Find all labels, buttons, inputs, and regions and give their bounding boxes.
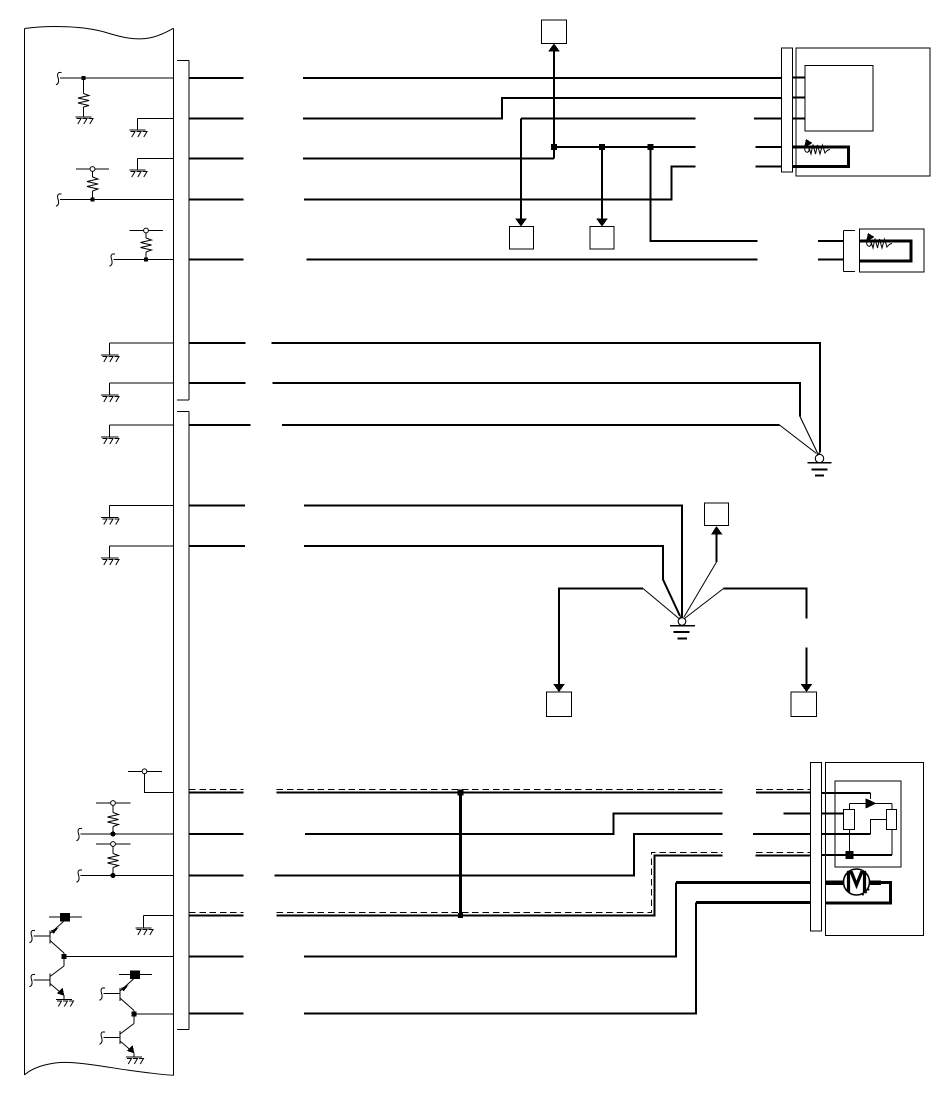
off-page box B5 bbox=[791, 692, 817, 717]
arrow up into box B6 bbox=[711, 526, 723, 535]
off-page box B2 bbox=[510, 227, 534, 250]
wire b3 internal (row y=875.5) bbox=[76, 870, 173, 882]
chassis ground GND2 (center) bbox=[678, 617, 686, 626]
motor terminal stub right bbox=[869, 880, 881, 885]
junction at R2 bottom bbox=[91, 198, 95, 202]
heater H2 squiggle bbox=[867, 239, 892, 249]
pin stub U2-3 bbox=[793, 118, 806, 120]
chassis ground GND1 (right) bbox=[815, 453, 823, 462]
heater H1 squiggle bbox=[805, 145, 830, 155]
O2 sensor unit box U2 bbox=[796, 48, 930, 176]
wire node-A branch (y=147 to right) bbox=[554, 146, 782, 148]
junction node Q3/Q4 (134,1014) bbox=[132, 1012, 137, 1017]
wire drop to box B2 (x=521) bbox=[520, 119, 522, 220]
wire pin4 internal (row y=199.5) bbox=[56, 194, 174, 206]
pull-up resistor R3 (pin5) bbox=[130, 228, 164, 259]
junction bus top bbox=[458, 790, 464, 796]
wire m2 internal + ground G5 (row y=383) bbox=[110, 383, 174, 395]
shield bus vertical (x=460.5) bbox=[459, 793, 462, 916]
resistor element right (sensor) bbox=[887, 810, 897, 830]
off-page box B6 bbox=[705, 503, 729, 526]
arrow up into off-page box B1 bbox=[548, 43, 560, 51]
junction at R5 bottom bbox=[110, 873, 115, 878]
wire m5 internal + ground G8 (row y=546) bbox=[110, 546, 174, 558]
heater H2 arrow bbox=[866, 233, 875, 242]
ground G2 bbox=[130, 130, 148, 137]
wire motor feed 2 (y=902.5) bbox=[696, 901, 811, 904]
off-page box B3 bbox=[590, 227, 614, 250]
wire pin2 internal (row y=118.5) bbox=[138, 119, 174, 131]
wire m1 harness (y=343 to ground point) bbox=[189, 343, 820, 453]
transistor Q2 (NPN lower, pair1) bbox=[29, 966, 64, 1000]
wire pin1 harness (y=78 to O2 sensor) bbox=[189, 77, 782, 79]
pull-up resistor R2 (pin4) bbox=[76, 167, 109, 200]
connector C2 (heater H2) bbox=[844, 231, 856, 272]
wire m3 harness (y=425, slant to ground) bbox=[189, 424, 780, 426]
junction at R3 bottom bbox=[144, 258, 148, 262]
supply square V1 (pair1) bbox=[60, 913, 70, 922]
wire pin1 internal (row y=78) bbox=[56, 72, 174, 84]
wire m1 internal + ground G4 (row y=343) bbox=[110, 343, 174, 355]
motor unit box U4 bbox=[826, 763, 924, 936]
wire b6 harness (row y=1013.5 up to motor feed y=902.5) bbox=[189, 903, 696, 1014]
Q3 emitter arrow bbox=[121, 985, 129, 992]
resistor R1 bbox=[78, 78, 89, 117]
ground G10 (Q2 emitter) bbox=[56, 1000, 74, 1007]
supply square V2 (pair2) bbox=[130, 971, 140, 980]
ground G11 (Q4 emitter) bbox=[126, 1057, 144, 1064]
pin stub U4-3 (to right element) bbox=[822, 820, 887, 835]
transistor Q4 (NPN lower, pair2) bbox=[99, 1024, 134, 1058]
Q1 emitter arrow bbox=[51, 928, 59, 935]
wire right horn (GND2 to box B5) bbox=[724, 589, 807, 685]
wire motor feed 1 (y=882.5) bbox=[676, 881, 811, 884]
wire b2 internal (row y=834) bbox=[76, 828, 173, 840]
ground G3 bbox=[130, 170, 148, 177]
wire b5 harness (row y=956.5 up to motor feed y=882.5) bbox=[189, 883, 676, 957]
junction node A2 (602,147) bbox=[599, 144, 605, 150]
wire m2 slant into GND1 bbox=[800, 417, 818, 454]
position sensor box (inside U4) bbox=[835, 781, 901, 867]
pull-up resistor R5 internal (row y=875.5) bbox=[96, 842, 131, 876]
connector bracket J2 (lower, right of module) bbox=[177, 412, 189, 1030]
junction bus bottom bbox=[458, 913, 463, 918]
off-page box B4 bbox=[547, 692, 572, 717]
wire pin3 harness (y=158.5 to node A vertical) bbox=[189, 158, 554, 160]
resistor element left (sensor) bbox=[844, 810, 855, 830]
junction at R1 top bbox=[82, 76, 86, 80]
wire b6 internal (row y=1014) bbox=[134, 1011, 174, 1024]
motor M1 bbox=[844, 869, 870, 895]
wire b1 harness solid (row y=792.5, shielded) bbox=[189, 792, 811, 794]
junction node Q1/Q2 (64,956.5) bbox=[62, 954, 67, 959]
arrow down into box B4 bbox=[553, 684, 565, 692]
wire node-A3 drop to heater H2 (x=650.5, y=241) bbox=[651, 147, 844, 241]
wiper arrow (sensor) bbox=[866, 798, 877, 808]
wire at V2 bbox=[119, 974, 152, 976]
pin stub U4-4 (sensor ground) bbox=[822, 830, 893, 856]
module U1 (ECM, torn-edge box) bbox=[25, 27, 174, 1076]
connector C1 (O2 sensor) bbox=[782, 48, 793, 172]
wire at V1 bbox=[49, 916, 82, 918]
arrow down into box B3 bbox=[596, 219, 608, 227]
wire pin4 harness (y=199.5 step up to y=166.5, O2 heater low pin) bbox=[189, 167, 782, 200]
connector C3 (motor unit) bbox=[811, 763, 822, 932]
wire b2 harness (row y=834 step up to y=813.5) bbox=[189, 814, 811, 835]
terminal T1 internal (row y=792.5) bbox=[128, 769, 174, 793]
ground G1 (below R1) bbox=[76, 117, 94, 124]
motor return loop bbox=[826, 883, 891, 904]
Q4 emitter arrow bbox=[127, 1045, 135, 1054]
transistor Q3 (PNP upper, pair2) bbox=[99, 979, 134, 1011]
pin stub U4-1 (wiper feed) bbox=[822, 793, 871, 799]
wire node-A vertical (x=554 up to off-page box) bbox=[553, 51, 555, 159]
junction sensor ground (849.5,855) bbox=[846, 851, 854, 859]
junction node A3 (650.5,147) bbox=[648, 144, 654, 150]
wire pin2 harness (y=118.5 step up to y=98) bbox=[189, 98, 782, 119]
wire slant left horn to GND2 bbox=[643, 589, 680, 620]
wire pin3 internal (row y=158.5) bbox=[138, 159, 174, 171]
motor terminal stub left bbox=[826, 880, 845, 885]
wire slant up-branch to GND2 bbox=[684, 562, 717, 617]
sensor track wire (y=803.4) bbox=[850, 803, 893, 809]
wire branch at y=118.5 (x=521 corner to O2 pin3) bbox=[521, 118, 782, 120]
wire m3 slant into GND1 bbox=[780, 425, 817, 454]
heater element H2 loop bbox=[860, 241, 912, 261]
shield dash b1 bbox=[189, 788, 811, 790]
wire up-branch (GND2 to box B6) bbox=[716, 535, 718, 563]
wire m2 harness (y=383, corner x=800, slant to ground) bbox=[189, 383, 800, 417]
Q2 emitter arrow bbox=[57, 988, 65, 997]
heater H1 arrow bbox=[804, 139, 813, 148]
off-page box B1 (top) bbox=[542, 20, 567, 44]
wire m3 internal + ground G6 (row y=425) bbox=[110, 425, 174, 437]
heater unit box U3 bbox=[860, 229, 925, 272]
junction node A (554,147) bbox=[551, 144, 557, 150]
wire m4 internal + ground G7 (row y=505.5) bbox=[110, 506, 174, 518]
pull-up resistor R4 internal (row y=834) bbox=[96, 801, 131, 834]
wire pin5 harness (y=259.5 to heater H2 pin2) bbox=[189, 259, 843, 261]
junction at R4 bottom bbox=[110, 831, 115, 836]
wire b4 internal + ground G9 (row y=915.5) bbox=[144, 916, 174, 929]
pin stub U2-1 bbox=[793, 77, 806, 79]
shield dash b4 bbox=[189, 852, 811, 912]
arrow down into box B5 bbox=[801, 684, 813, 692]
sensor element box (inside U2) bbox=[805, 66, 873, 132]
wire drop to box B3 (x=602) bbox=[601, 147, 603, 220]
wire slant right horn to GND2 bbox=[685, 589, 724, 619]
connector bracket J1 (upper, right of module) bbox=[177, 61, 189, 401]
heater element H1 loop (inside U2) bbox=[793, 147, 849, 167]
pin stub U2-2 bbox=[793, 97, 806, 99]
transistor Q1 (PNP upper, pair1) bbox=[29, 922, 64, 954]
wire b4 harness solid (row y=915.5 step up to y=855.5, shielded) bbox=[189, 856, 811, 916]
wire m4 harness (y=505.5 down into GND2) bbox=[189, 506, 682, 618]
wire left horn (box B4 up to GND2) bbox=[559, 589, 643, 685]
wire pin5 internal (row y=259.5) bbox=[109, 254, 173, 266]
wire m5 harness (y=546, corner x=663, slant to GND2) bbox=[189, 546, 680, 616]
arrow down into box B2 bbox=[515, 219, 527, 227]
pin stub U4-2 bbox=[822, 812, 844, 814]
wire b5 internal (row y=956.5) bbox=[64, 953, 174, 966]
wire b3 harness (row y=875.5 step up to y=834) bbox=[189, 834, 811, 876]
